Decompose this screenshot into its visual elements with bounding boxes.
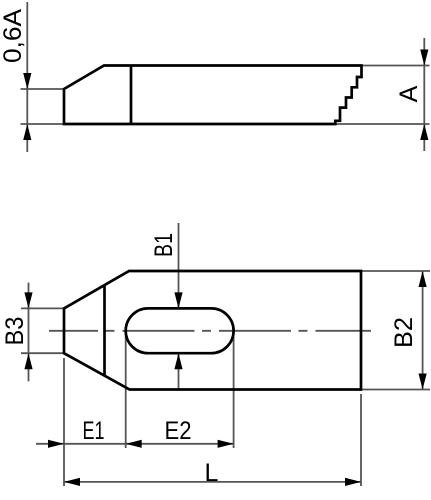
svg-text:E2: E2 xyxy=(165,417,192,445)
svg-text:B1: B1 xyxy=(150,233,178,257)
svg-text:B2: B2 xyxy=(390,317,418,348)
svg-text:E1: E1 xyxy=(83,417,105,445)
svg-text:L: L xyxy=(205,459,219,487)
svg-text:B3: B3 xyxy=(1,317,29,346)
svg-text:A: A xyxy=(395,85,423,102)
svg-text:0,6A: 0,6A xyxy=(0,9,27,63)
